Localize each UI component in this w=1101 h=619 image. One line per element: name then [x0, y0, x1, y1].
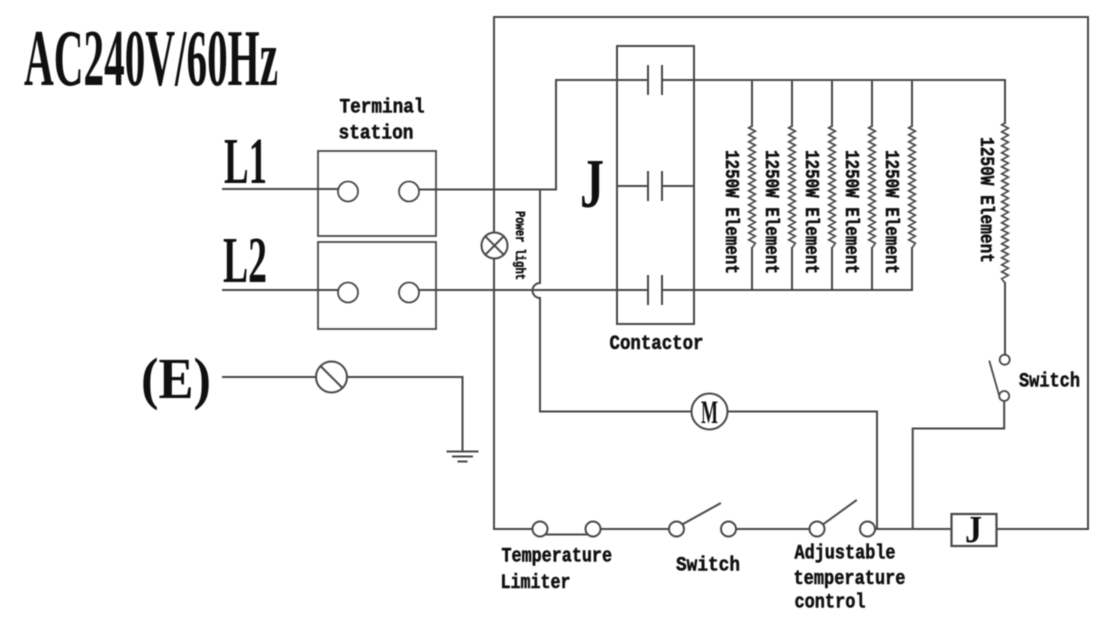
terminal circle bottom-left — [338, 283, 358, 303]
wire: L2 lead-in — [223, 289, 338, 291]
terminal circle bottom-right — [399, 283, 419, 303]
heater element 4 zigzag — [869, 126, 876, 248]
relay J box — [952, 514, 997, 546]
svg-text:L1: L1 — [224, 125, 267, 198]
heater element 2 zigzag — [789, 126, 796, 248]
svg-text:1250W Element: 1250W Element — [975, 137, 997, 263]
svg-text:Adjustable: Adjustable — [795, 543, 896, 566]
wire: L1 lead-in — [223, 188, 338, 190]
svg-text:1250W Element: 1250W Element — [720, 150, 742, 274]
terminal station lower box — [318, 242, 436, 329]
svg-text:Switch: Switch — [676, 555, 740, 578]
adjustable temperature control switch — [810, 501, 876, 537]
wire: bus segment 5 — [997, 528, 1089, 530]
svg-text:Terminal: Terminal — [340, 97, 425, 120]
svg-text:station: station — [339, 123, 414, 146]
svg-text:1250W Element: 1250W Element — [840, 150, 862, 274]
terminal station upper box — [318, 151, 436, 236]
wire: bus segment 2 — [601, 528, 670, 530]
terminal circle top-left — [338, 182, 358, 202]
svg-text:Contactor: Contactor — [610, 333, 704, 356]
contact top (bars) — [648, 66, 662, 94]
svg-text:Power light: Power light — [511, 211, 526, 280]
switch S2 (bottom) — [669, 504, 736, 537]
contact middle with leads — [617, 172, 694, 200]
svg-text:J: J — [965, 509, 982, 551]
heater element 4 wires — [871, 80, 873, 290]
svg-text:Switch: Switch — [1019, 371, 1080, 394]
wire: outer loop top edge — [494, 16, 1088, 18]
svg-text:temperature: temperature — [794, 568, 906, 591]
contact bottom (bars) — [648, 276, 662, 304]
svg-text:M: M — [701, 395, 718, 431]
heater element 1 zigzag — [749, 126, 756, 248]
heater element 5 wires — [911, 80, 913, 290]
wire: J coil drive vertical with hop over L2 — [533, 190, 692, 412]
wire: bus segment 4 to J box — [875, 528, 952, 530]
wire: L2 feed to contactor bottom contact — [419, 289, 648, 291]
switch S1 (right) contacts — [990, 355, 1010, 401]
contactor box — [617, 46, 694, 324]
wire: L1 to contactor riser — [419, 80, 648, 190]
wire: bus segment 3 — [736, 528, 810, 530]
fuse: circle with slash — [316, 362, 347, 393]
wire: bottom element bus — [662, 289, 912, 291]
wire: bus between limiter circles — [546, 534, 587, 536]
lamp: power light (circle with X) — [482, 233, 508, 259]
wire: switch S1 down and across — [913, 401, 1005, 529]
heater element 5 zigzag — [909, 126, 916, 248]
terminal circle top-right — [399, 182, 419, 202]
ground — [448, 452, 478, 462]
heater element 3 wires — [831, 80, 833, 290]
wire: E to ground — [347, 377, 463, 450]
wire: motor to adjustable control drop — [728, 412, 878, 530]
wire: E lead — [223, 376, 316, 378]
wire: outer loop left edge lower segment — [493, 259, 495, 530]
wire: outer loop left edge upper segment — [493, 17, 495, 233]
svg-text:Limiter: Limiter — [501, 572, 571, 595]
svg-text:control: control — [795, 592, 866, 615]
svg-text:AC240V/60Hz: AC240V/60Hz — [24, 15, 278, 103]
heater element 2 wires — [791, 80, 793, 290]
heater element 6 zigzag — [1002, 123, 1009, 283]
wire: outer loop right edge — [1087, 17, 1089, 529]
heater element 1 wires — [751, 80, 753, 290]
temperature limiter circle 2 — [586, 522, 601, 537]
heater element 3 zigzag — [829, 126, 836, 248]
svg-text:(E): (E) — [141, 346, 211, 411]
svg-text:J: J — [580, 146, 604, 223]
temperature limiter circle 1 — [533, 522, 548, 537]
heater element 6 wires — [1004, 80, 1006, 355]
svg-text:L2: L2 — [223, 224, 267, 297]
svg-text:1250W Element: 1250W Element — [760, 150, 782, 274]
svg-text:1250W Element: 1250W Element — [800, 150, 822, 274]
wire: bottom bus segment 1 — [494, 528, 533, 530]
svg-text:Temperature: Temperature — [502, 546, 613, 569]
motor M circle — [692, 394, 728, 430]
wire: top bus to elements — [662, 79, 1005, 81]
svg-text:1250W Element: 1250W Element — [880, 150, 902, 274]
